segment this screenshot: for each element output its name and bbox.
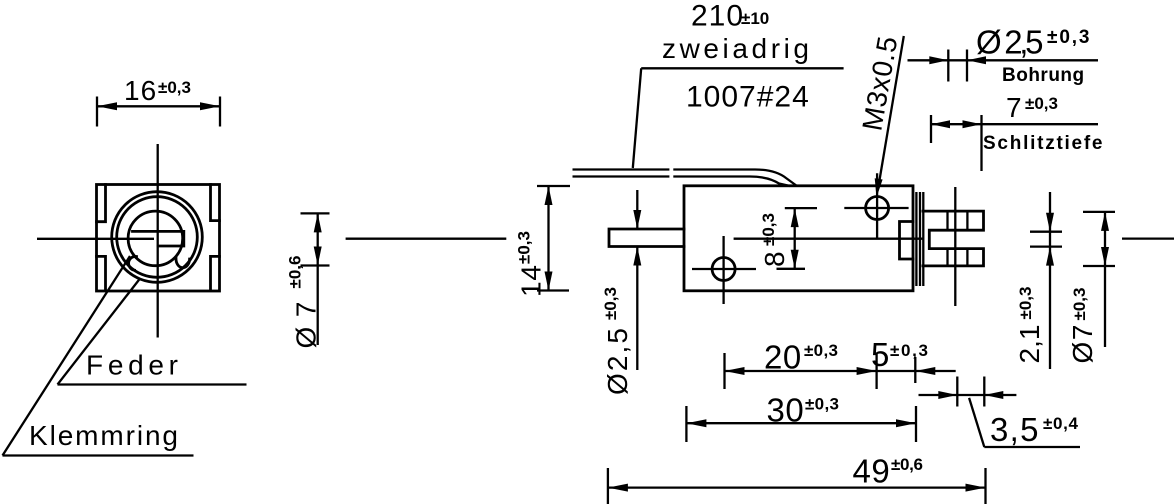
svg-text:2,1: 2,1 [1014,324,1045,364]
lead wire 1 [573,170,798,187]
dimension 30 ±0,3 [686,392,916,443]
svg-text:Schlitztiefe: Schlitztiefe [983,133,1103,154]
svg-text:49: 49 [853,453,891,490]
dimension 49 ±0,6 overall [608,453,986,504]
svg-text:±0,6: ±0,6 [286,256,305,289]
svg-text:±0,3: ±0,3 [601,287,620,320]
svg-text:210: 210 [691,0,744,33]
dimension 20 ±0,3 hole spacing [725,339,877,390]
svg-text:5: 5 [871,336,890,373]
label Klemmring with leader [3,256,194,456]
svg-text:±0,3: ±0,3 [804,341,838,360]
dimension Ø2,5 ±0,3 Bohrung [908,24,1099,87]
svg-text:30: 30 [767,392,805,429]
label Feder with leader [58,279,247,385]
svg-text:Bohrung: Bohrung [1002,65,1085,86]
lead wire 2 [573,177,791,187]
svg-text:Ø 2,5: Ø 2,5 [976,24,1044,61]
svg-text:Klemmring: Klemmring [29,420,179,451]
front view vertical centerline [157,144,159,338]
side view body [684,186,913,291]
svg-text:±0,3: ±0,3 [1016,287,1035,320]
svg-text:16: 16 [124,75,157,106]
clamp ring right hook [176,259,190,268]
svg-text:3,5: 3,5 [990,411,1039,448]
label M3x0.5 with leader [856,33,903,197]
dimension 8 ±0,3 hole offset [759,208,817,269]
svg-text:±0,6: ±0,6 [891,455,923,474]
svg-text:7: 7 [1006,92,1023,123]
plunger circle [128,211,183,266]
flange plates [916,192,923,286]
dimension 3,5 ±0,4 [919,377,1081,449]
svg-text:±0,3: ±0,3 [1070,288,1089,321]
dimension 7 ±0,3 Schlitztiefe [931,92,1103,171]
svg-text:Feder: Feder [86,350,179,381]
hole lower-left with crosshair [692,236,756,304]
svg-text:Ø 7: Ø 7 [1067,324,1098,364]
dimension Ø7 ±0,6 front plunger [286,213,330,348]
svg-text:±0,3: ±0,3 [1047,27,1090,48]
svg-text:±0,3: ±0,3 [1025,94,1058,113]
svg-text:1007#24: 1007#24 [686,81,810,114]
front view horizontal centerline [37,238,154,240]
threaded stud prongs with slot [923,211,984,266]
axis centerline segments [346,237,1174,239]
dimension Ø2,5 ±0,3 plunger rod [601,190,641,395]
svg-text:±0,4: ±0,4 [1043,414,1079,433]
spring ring inner circle [117,197,198,278]
svg-text:Ø2,5: Ø2,5 [602,327,633,395]
svg-text:±0,3: ±0,3 [890,341,928,360]
side view plunger rod [609,229,684,247]
hidden boss rectangle at body right [900,222,914,260]
svg-text:±0,3: ±0,3 [158,78,191,97]
svg-text:±0,3: ±0,3 [515,231,534,264]
clamp ring left hook [129,256,137,270]
svg-text:±10: ±10 [741,9,769,28]
svg-text:±0,3: ±0,3 [805,395,839,414]
front view frame square [97,185,220,292]
plunger slot [133,231,184,246]
hole upper-right with crosshair [844,173,908,239]
dimension 5 ±0,3 [871,336,956,383]
dimension 14 ±0,3 body height [515,186,571,297]
svg-text:14: 14 [516,264,547,297]
dimension 2,1 ±0,3 slot width [1014,192,1062,369]
wire label texts 210 zweiadrig 1007#24 [633,0,844,168]
dimension 16 ±0,3 top [97,75,220,127]
svg-text:20: 20 [764,339,802,376]
slot depth extension line [954,187,956,306]
front view right mounting slot [211,185,220,291]
spring ring outer circle [112,192,203,283]
svg-text:8: 8 [759,250,790,267]
dimension Ø7 ±0,3 stud [1067,212,1115,364]
front view left mounting slot [97,185,106,291]
svg-text:zweiadrig: zweiadrig [662,33,810,64]
svg-text:±0,3: ±0,3 [759,213,778,246]
